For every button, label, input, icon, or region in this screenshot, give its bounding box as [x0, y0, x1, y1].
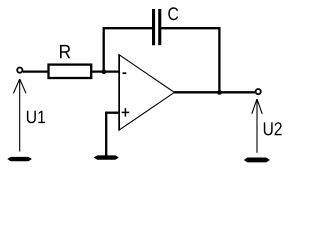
label C (capacitor value label)	[168, 7, 178, 20]
wire: feedback right vertical segment	[218, 27, 220, 92]
label U2 (output voltage)	[264, 122, 282, 135]
wire: op-amp noninverting input horizontal	[105, 112, 119, 114]
ground (output side, below U2 arrow)	[244, 158, 270, 163]
wire: resistor R to op-amp inverting input	[92, 70, 119, 72]
wire: feedback top-right segment	[161, 27, 220, 29]
voltage arrow U1 (input voltage indicator)	[13, 79, 26, 152]
output terminal (port)	[256, 89, 261, 94]
label R (resistor value label)	[60, 45, 70, 58]
wire: feedback left vertical segment	[103, 27, 105, 71]
capacitor C	[152, 9, 161, 45]
wire: noninverting input to ground vertical	[105, 112, 107, 156]
node B (junction dot at output)	[217, 90, 222, 95]
wire: feedback top-left segment	[103, 27, 153, 29]
resistor R	[49, 65, 92, 78]
op-amp (triangle with inverting "-" and noninverting "+" markers)	[119, 54, 174, 130]
wire: op-amp output to output terminal	[174, 91, 255, 93]
label U1 (input voltage)	[27, 111, 45, 124]
ground (input side, below U1 arrow)	[7, 157, 32, 161]
node A (junction dot at inverting input)	[101, 69, 106, 74]
wire: input terminal to resistor R	[23, 70, 49, 72]
voltage arrow U2 (output voltage indicator)	[252, 99, 262, 153]
input terminal (port)	[17, 68, 22, 73]
ground (op-amp noninverting input)	[94, 155, 119, 159]
